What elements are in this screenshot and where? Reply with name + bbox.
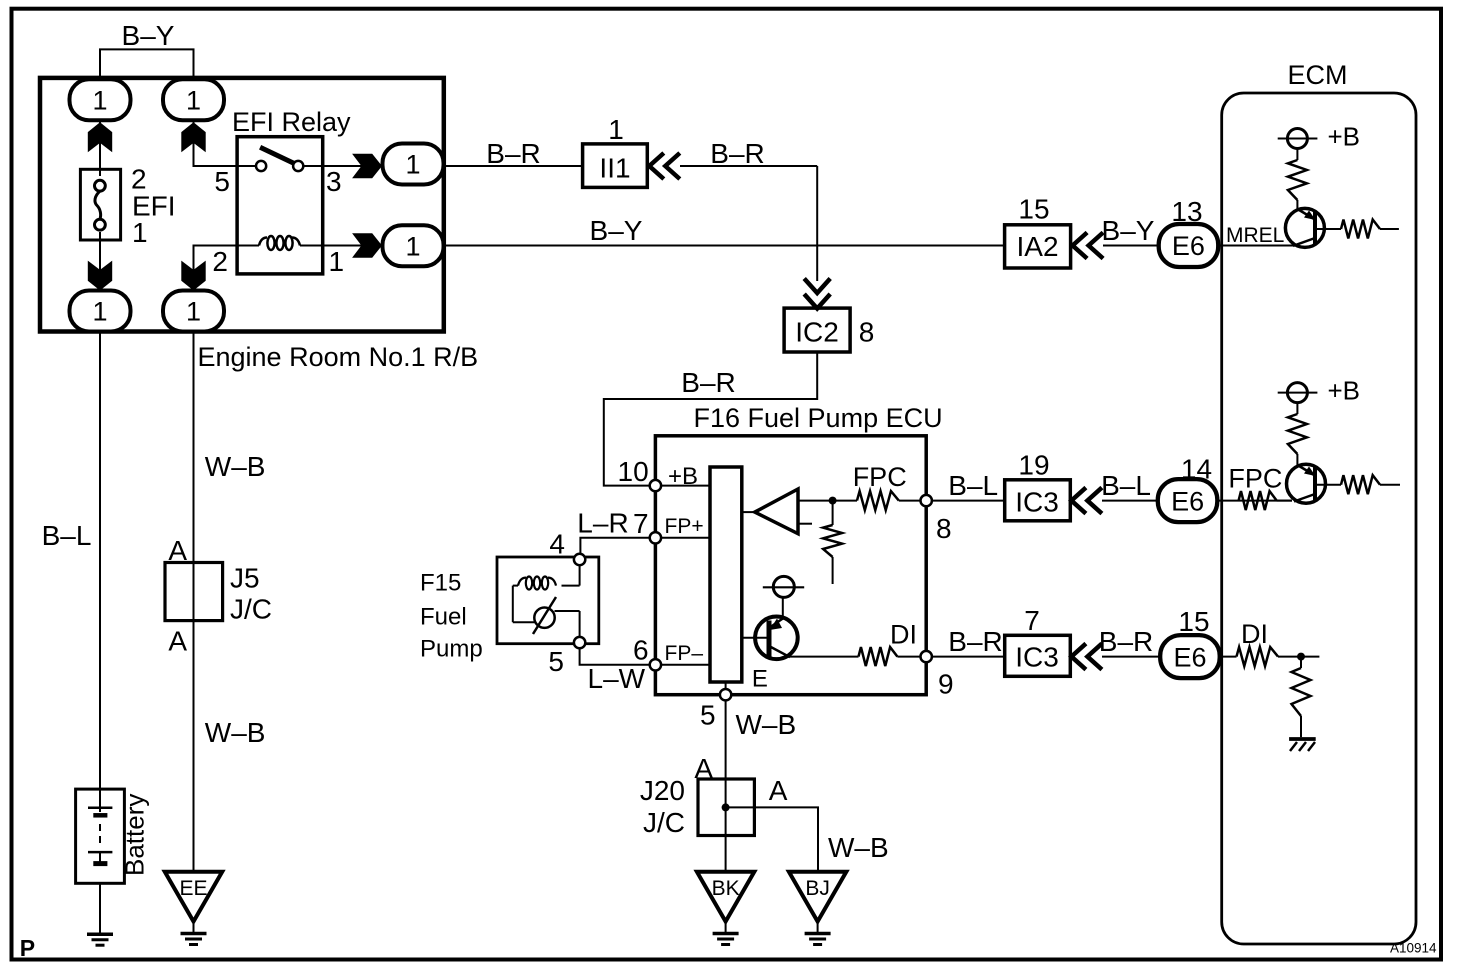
- fuse F-2 EFI 15A: [80, 169, 120, 240]
- wire IC2 to F16: [604, 352, 817, 486]
- pin 7 FP+: [650, 532, 661, 543]
- svg-text:B–L: B–L: [1101, 470, 1151, 501]
- svg-text:MREL: MREL: [1226, 224, 1284, 247]
- pump pin 4: [574, 554, 585, 565]
- resistor FPC internal: [857, 491, 899, 510]
- svg-text:J5: J5: [230, 563, 260, 594]
- relay coil: [237, 245, 259, 247]
- svg-text:F16 Fuel Pump ECU: F16 Fuel Pump ECU: [694, 403, 943, 433]
- resistor sense pull-down: [832, 501, 834, 525]
- svg-text:1: 1: [92, 297, 107, 327]
- power +B symbol FPC: [1287, 383, 1307, 403]
- svg-text:E6: E6: [1173, 642, 1206, 672]
- connector arrow right row2: [352, 233, 382, 257]
- connector arrow down-right: [181, 261, 205, 291]
- op-amp buffer: [742, 511, 755, 513]
- pin 8: [921, 495, 932, 506]
- svg-text:1: 1: [405, 150, 420, 180]
- wire fuse drop: [99, 120, 101, 176]
- svg-text:IC3: IC3: [1015, 642, 1059, 673]
- svg-text:B–R: B–R: [710, 138, 764, 169]
- wire B-Y row2: [443, 245, 1005, 247]
- wire B-Y to E6: [1103, 245, 1160, 247]
- connector E6 pin13: [1159, 224, 1219, 267]
- connector arrow up-left: [88, 122, 112, 152]
- battery: [76, 789, 125, 883]
- wire pin5 to J20: [725, 700, 727, 779]
- svg-text:F15: F15: [420, 570, 461, 597]
- svg-text:B–L: B–L: [948, 470, 998, 501]
- svg-text:B–Y: B–Y: [590, 215, 643, 246]
- wire B-R row1 left: [443, 165, 583, 167]
- junction connector J5 J/C: [165, 563, 223, 621]
- F15 fuel pump box: [497, 557, 599, 644]
- svg-text:+B: +B: [668, 463, 698, 490]
- svg-text:FPC: FPC: [1228, 463, 1282, 493]
- wire B-L to E6: [1102, 500, 1160, 502]
- svg-text:J20: J20: [640, 775, 685, 806]
- wire pin9 to IC3: [926, 656, 1005, 658]
- wire fuse to lower connector: [99, 232, 101, 291]
- svg-text:EE: EE: [179, 877, 207, 900]
- svg-text:B–R: B–R: [1099, 626, 1153, 657]
- svg-text:5: 5: [548, 646, 564, 677]
- connector IC3 pin19: [1005, 480, 1071, 521]
- connector arrow down-left: [88, 261, 112, 291]
- svg-text:W–B: W–B: [205, 717, 266, 748]
- chevrons IA2: [1073, 233, 1088, 259]
- svg-text:L–W: L–W: [588, 663, 646, 694]
- node DI junction: [1297, 653, 1305, 661]
- connector II1: [583, 144, 648, 188]
- resistor MREL base: [1341, 220, 1380, 239]
- pump motor: [512, 586, 514, 623]
- svg-text:B–R: B–R: [681, 367, 735, 398]
- svg-text:BK: BK: [712, 877, 740, 900]
- svg-text:W–B: W–B: [736, 709, 797, 740]
- wire B-L battery: [99, 332, 101, 790]
- svg-text:1: 1: [405, 232, 420, 262]
- wire B-R row1 right: [680, 165, 817, 167]
- svg-text:1: 1: [329, 246, 345, 277]
- svg-text:+B: +B: [1328, 122, 1361, 152]
- wire battery to ground: [99, 883, 101, 934]
- svg-text:1: 1: [186, 297, 201, 327]
- wire through J20: [725, 779, 727, 836]
- svg-text:5: 5: [214, 166, 230, 197]
- connector arrow up-right: [181, 122, 205, 152]
- resistor DI internal: [859, 647, 898, 666]
- svg-text:8: 8: [936, 513, 952, 544]
- chevrons IC3 pin19: [1071, 488, 1086, 514]
- svg-text:15: 15: [1018, 194, 1049, 225]
- connector 1 top-right: [163, 79, 224, 120]
- pin 5 bottom: [720, 689, 731, 700]
- chassis ground DI: [1289, 737, 1316, 741]
- svg-text:10: 10: [618, 456, 649, 487]
- svg-text:BJ: BJ: [805, 877, 830, 900]
- pin 9: [921, 651, 932, 662]
- resistor DI: [1237, 647, 1279, 666]
- wire W-B to J5: [193, 332, 195, 872]
- svg-text:Pump: Pump: [420, 636, 483, 663]
- svg-text:IC2: IC2: [795, 317, 839, 348]
- svg-text:II1: II1: [599, 153, 630, 184]
- connector IA2: [1005, 225, 1071, 268]
- transistor Q F16: [755, 617, 798, 660]
- svg-text:1: 1: [132, 217, 148, 248]
- relay switch contacts: [237, 165, 256, 167]
- svg-text:Engine Room No.1 R/B: Engine Room No.1 R/B: [198, 342, 479, 372]
- chevrons II1: [649, 153, 664, 179]
- wire FP+ to pump pin4: [580, 538, 650, 554]
- pump coil: [579, 565, 581, 586]
- resistor MREL pull-up: [1296, 149, 1298, 161]
- transistor MREL: [1285, 208, 1324, 247]
- svg-text:E6: E6: [1172, 231, 1205, 261]
- svg-text:P: P: [20, 935, 35, 961]
- svg-text:14: 14: [1181, 454, 1212, 485]
- svg-text:13: 13: [1171, 196, 1202, 227]
- svg-text:IC3: IC3: [1015, 487, 1059, 518]
- wire J20 to BK: [725, 836, 727, 872]
- svg-text:A: A: [769, 775, 788, 806]
- resistor FPC wire: [1239, 491, 1277, 510]
- svg-text:J/C: J/C: [230, 594, 272, 625]
- svg-text:B–R: B–R: [948, 626, 1002, 657]
- ground battery: [87, 932, 113, 936]
- svg-text:FP–: FP–: [665, 642, 704, 665]
- svg-text:FP+: FP+: [665, 515, 704, 538]
- F16 Fuel Pump ECU box: [655, 436, 926, 695]
- transistor FPC: [1287, 464, 1326, 503]
- ground BK: [697, 872, 754, 922]
- connector IC3 pin7: [1005, 635, 1071, 676]
- ground EE: [165, 872, 222, 922]
- bus bar block: [710, 467, 742, 682]
- pump pin 5: [574, 637, 585, 648]
- junction box Engine Room No.1 R/B: [40, 78, 444, 332]
- connector E6 pin15: [1160, 635, 1220, 678]
- svg-text:IA2: IA2: [1016, 231, 1058, 262]
- svg-text:Battery: Battery: [120, 794, 150, 876]
- svg-text:FPC: FPC: [853, 462, 907, 492]
- connector IC2: [784, 308, 850, 352]
- svg-text:1: 1: [186, 86, 201, 116]
- svg-text:8: 8: [859, 317, 875, 348]
- svg-text:B–L: B–L: [42, 520, 92, 551]
- wire relay pin5 feed: [194, 120, 238, 166]
- svg-text:3: 3: [326, 166, 342, 197]
- resistor FPC base: [1341, 475, 1380, 494]
- svg-text:J/C: J/C: [643, 807, 685, 838]
- wire relay pin2 to connector: [194, 246, 238, 292]
- connector 1 right row1: [383, 144, 444, 185]
- wire pin8 to IC3: [926, 500, 1005, 502]
- wire pump pin5 to FP-: [580, 648, 650, 665]
- wire J20 to BJ: [726, 807, 818, 871]
- connector arrow right row1: [352, 154, 382, 178]
- svg-text:7: 7: [633, 508, 649, 539]
- chevrons IC3 pin7: [1071, 644, 1086, 670]
- wire transistor to DI resistor: [788, 656, 859, 658]
- wire drop to IC2: [816, 166, 818, 281]
- power +B symbol MREL: [1287, 129, 1307, 149]
- wire B-Y loop above R/B: [100, 49, 194, 78]
- svg-text:EFI Relay: EFI Relay: [232, 107, 351, 137]
- node FPC junction: [829, 497, 837, 505]
- resistor DI pull-down: [1300, 657, 1302, 668]
- svg-text:Fuel: Fuel: [420, 604, 467, 631]
- svg-text:ECM: ECM: [1288, 60, 1348, 90]
- svg-text:L–R: L–R: [577, 507, 628, 538]
- connector 1 right row2: [383, 225, 444, 266]
- svg-text:W–B: W–B: [828, 832, 889, 863]
- chevrons IC2: [804, 279, 830, 294]
- node J20 junction: [722, 803, 730, 811]
- connector E6 pin14: [1158, 479, 1218, 522]
- ground BJ: [789, 872, 846, 922]
- ECM box: [1222, 93, 1416, 944]
- svg-text:1: 1: [608, 114, 624, 145]
- junction connector J20 J/C: [698, 779, 754, 836]
- resistor FPC pull-up: [1296, 403, 1298, 414]
- svg-text:W–B: W–B: [205, 451, 266, 482]
- svg-text:4: 4: [549, 529, 565, 560]
- svg-text:15: 15: [1178, 606, 1209, 637]
- svg-text:A: A: [168, 626, 187, 657]
- wire E6 to MREL: [1217, 245, 1293, 247]
- svg-text:B–Y: B–Y: [122, 20, 175, 51]
- svg-text:1: 1: [92, 86, 107, 116]
- connector 1 bottom-left: [70, 291, 131, 332]
- pin 6 FP-: [650, 659, 661, 670]
- svg-text:9: 9: [938, 669, 954, 700]
- svg-text:B–Y: B–Y: [1102, 215, 1155, 246]
- connector 1 bottom-right: [163, 291, 224, 332]
- wire relay pin1 out: [323, 245, 383, 247]
- lamp symbol: [773, 576, 794, 597]
- svg-text:19: 19: [1018, 450, 1049, 481]
- pin 10 +B: [650, 480, 661, 491]
- wire E6 to DI resistor: [1219, 656, 1237, 658]
- svg-text:+B: +B: [1328, 376, 1361, 406]
- wire E6 to FPC transistor: [1216, 500, 1292, 502]
- wire relay pin3 out: [323, 165, 383, 167]
- svg-text:DI: DI: [1241, 619, 1268, 649]
- svg-text:DI: DI: [890, 619, 917, 649]
- svg-text:A10914: A10914: [1390, 941, 1437, 956]
- svg-text:B–R: B–R: [486, 138, 540, 169]
- wire bar to pin5: [725, 682, 727, 689]
- connector 1 top-left: [70, 79, 131, 120]
- wire B-R to E6: [1102, 656, 1161, 658]
- svg-text:E: E: [752, 666, 768, 693]
- svg-text:E6: E6: [1171, 486, 1204, 516]
- svg-text:2: 2: [212, 246, 228, 277]
- svg-text:5: 5: [700, 700, 716, 731]
- EFI relay box: [237, 137, 323, 274]
- svg-text:7: 7: [1024, 605, 1040, 636]
- wire lamp to transistor: [782, 597, 784, 618]
- svg-text:6: 6: [633, 635, 649, 666]
